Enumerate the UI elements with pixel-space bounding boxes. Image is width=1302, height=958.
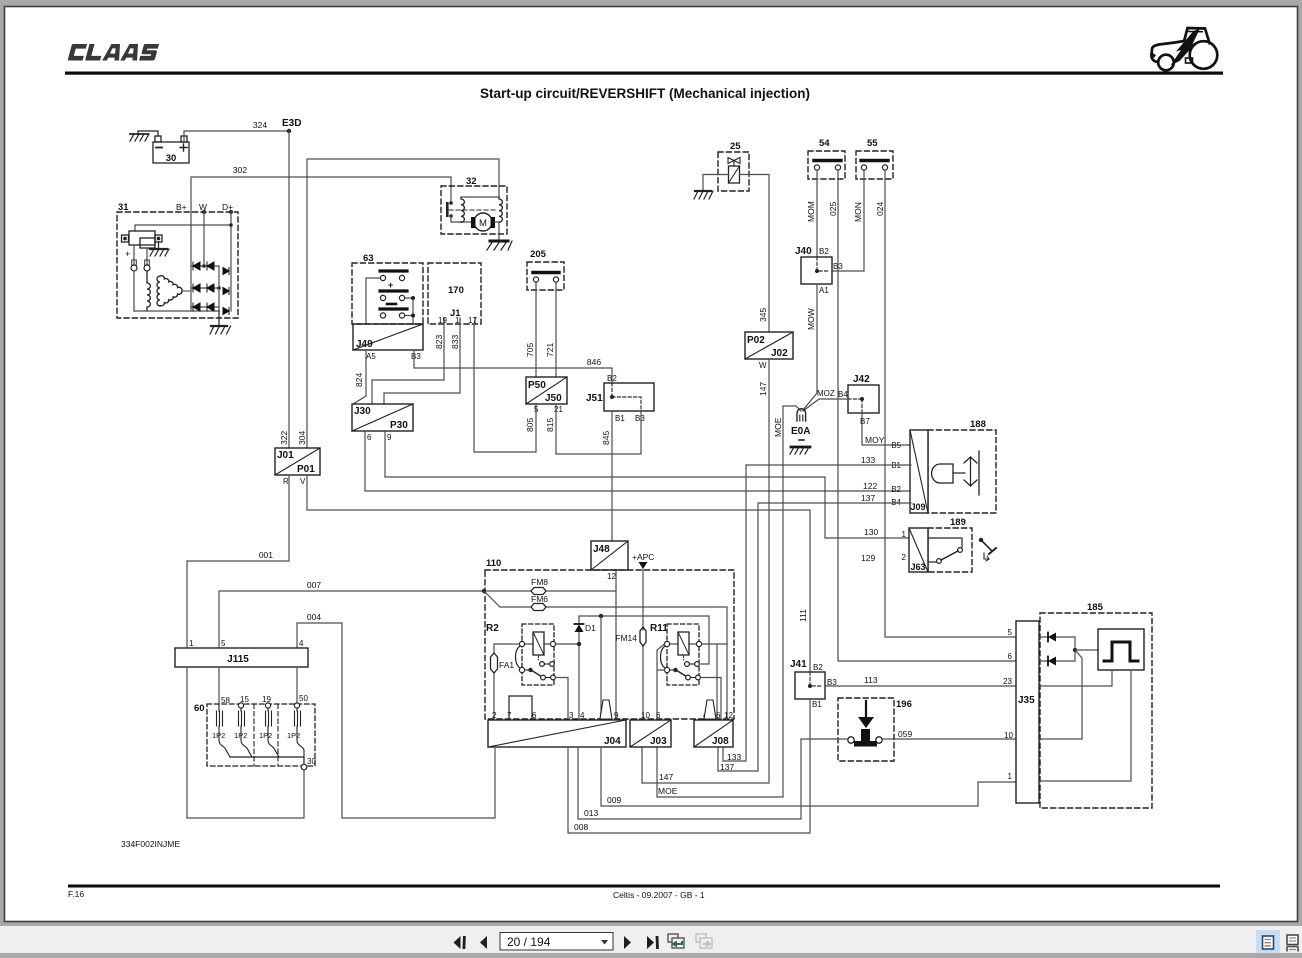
svg-text:B3: B3 — [635, 414, 645, 423]
svg-text:19: 19 — [438, 316, 447, 325]
svg-text:J51: J51 — [586, 393, 603, 404]
svg-text:J09: J09 — [911, 502, 926, 512]
svg-text:R: R — [283, 477, 289, 486]
svg-text:001: 001 — [259, 550, 273, 560]
toolbar: last page button — [647, 936, 659, 949]
alternator ground — [210, 311, 231, 334]
relay J41 — [790, 659, 837, 709]
svg-text:P30: P30 — [390, 420, 408, 431]
alternator 31 — [117, 202, 238, 334]
contact row 3 — [387, 303, 396, 306]
node E3D — [287, 129, 291, 133]
brush terminals — [134, 245, 147, 265]
svg-text:MON: MON — [853, 202, 863, 222]
svg-text:189: 189 — [950, 517, 966, 528]
wire 122 J30.6 to J09.B2 — [365, 431, 911, 491]
svg-text:J50: J50 — [545, 393, 562, 404]
svg-text:196: 196 — [896, 699, 912, 710]
field coil right — [499, 197, 502, 222]
coil — [533, 632, 544, 655]
svg-text:12: 12 — [724, 711, 733, 720]
svg-text:113: 113 — [864, 675, 878, 685]
wire 345 solenoid to P02 — [740, 175, 770, 333]
svg-text:J63: J63 — [911, 562, 926, 572]
svg-text:20 / 194: 20 / 194 — [507, 935, 551, 949]
svg-text:P02: P02 — [747, 335, 765, 346]
svg-text:B5: B5 — [891, 441, 901, 450]
svg-text:58: 58 — [221, 696, 230, 705]
wire 833 J1.1 to J30 — [384, 324, 460, 404]
fuse FM6 — [531, 594, 548, 611]
starter motor 32 — [441, 176, 512, 250]
wire MOZ E0A to J42.B4 — [803, 399, 848, 411]
svg-text:3: 3 — [569, 711, 574, 720]
regulator ground — [150, 242, 169, 256]
svg-text:60: 60 — [194, 703, 205, 714]
svg-text:10: 10 — [1004, 731, 1013, 740]
svg-text:+: + — [125, 249, 130, 259]
svg-text:6: 6 — [532, 711, 537, 720]
svg-text:1P2: 1P2 — [259, 731, 272, 740]
mechanical link — [449, 209, 495, 211]
wire R2 coil to FA1 to J04.2 — [494, 644, 520, 720]
svg-text:322: 322 — [279, 431, 289, 445]
toolbar: next page button — [624, 936, 631, 949]
svg-text:110: 110 — [486, 558, 501, 569]
svg-text:6: 6 — [367, 433, 372, 442]
svg-text:J40: J40 — [795, 246, 812, 257]
svg-text:J03: J03 — [650, 736, 667, 747]
svg-text:185: 185 — [1087, 602, 1104, 613]
wire D+ — [230, 212, 232, 311]
svg-text:1P2: 1P2 — [212, 731, 225, 740]
diode b — [1039, 660, 1075, 662]
svg-text:5: 5 — [534, 405, 539, 414]
svg-text:MOM: MOM — [806, 201, 816, 222]
connector P02/J02 — [745, 332, 793, 370]
svg-text:334F002INJME: 334F002INJME — [121, 839, 180, 849]
coil-common link curve — [516, 646, 521, 668]
wire 007 J115.5 to FM8/J48 — [219, 591, 616, 648]
svg-text:B3: B3 — [833, 262, 843, 271]
svg-text:17: 17 — [468, 316, 477, 325]
svg-text:1P2: 1P2 — [234, 731, 247, 740]
wire +APC through FM14 to J03.10 — [642, 569, 644, 720]
A — [120, 44, 141, 61]
pin funnel — [600, 700, 612, 719]
svg-text:302: 302 — [233, 165, 247, 175]
svg-text:FM6: FM6 — [531, 594, 548, 604]
wire 009 J04 to J35.1 — [601, 747, 1016, 806]
node D+ — [229, 210, 233, 214]
svg-text:10: 10 — [641, 711, 650, 720]
brake switch 196 — [838, 698, 912, 761]
fuse 1P2 (a) — [217, 705, 231, 757]
svg-text:205: 205 — [530, 249, 547, 260]
diode a — [1039, 636, 1075, 638]
fuse FA1 — [491, 653, 498, 673]
toolbar: prev page button — [480, 936, 487, 949]
voltage regulator — [122, 231, 163, 248]
bottom wire — [134, 310, 219, 312]
svg-text:4: 4 — [299, 639, 304, 648]
wire R11 contact to J08.6 — [701, 678, 722, 721]
svg-text:324: 324 — [253, 120, 267, 130]
svg-text:E0A: E0A — [791, 426, 810, 437]
svg-text:1: 1 — [902, 530, 907, 539]
page-mode button (continuous) — [1287, 935, 1298, 952]
svg-text:R11: R11 — [650, 623, 668, 634]
svg-text:B2: B2 — [891, 485, 901, 494]
svg-text:2: 2 — [902, 553, 907, 562]
svg-text:J42: J42 — [853, 374, 870, 385]
svg-text:B1: B1 — [615, 414, 625, 423]
svg-text:+APC: +APC — [632, 552, 654, 562]
svg-text:845: 845 — [601, 431, 611, 445]
connector J01/P01 — [275, 448, 320, 486]
svg-text:846: 846 — [587, 357, 601, 367]
thermostarter control 63 — [352, 253, 423, 324]
wire R2 coil to D1 junction, down to J04.4 — [556, 616, 710, 720]
svg-text:9: 9 — [387, 433, 392, 442]
wire to J04.10 — [600, 616, 602, 720]
svg-text:304: 304 — [297, 431, 307, 445]
svg-text:122: 122 — [863, 481, 877, 491]
page-mode button (active, single page) — [1256, 930, 1280, 953]
svg-text:1P2: 1P2 — [287, 731, 300, 740]
wire J115.4 to fuse 50 — [296, 667, 298, 702]
connector J03 — [630, 711, 671, 747]
svg-text:6: 6 — [1008, 652, 1013, 661]
svg-text:188: 188 — [970, 419, 986, 430]
S — [139, 44, 159, 61]
svg-text:133: 133 — [861, 455, 875, 465]
svg-text:55: 55 — [867, 138, 878, 149]
wire MOY J42.B7 to J09.B5 — [862, 413, 911, 445]
L — [85, 44, 104, 61]
svg-text:833: 833 — [450, 335, 460, 349]
wire 815 J50.21 to J51.B3 — [556, 404, 641, 454]
svg-text:6: 6 — [656, 711, 661, 720]
wire 137 J08 to J09.B4 — [718, 503, 911, 771]
svg-text:A1: A1 — [819, 286, 829, 295]
wire 008 J04 to J41.B1 — [568, 699, 810, 833]
lightning bolt — [1171, 29, 1201, 66]
svg-text:B4: B4 — [838, 390, 848, 399]
switch contacts — [928, 538, 962, 547]
battery 30 — [153, 136, 189, 163]
rotor field coil — [133, 271, 135, 311]
diode D1 — [575, 625, 584, 633]
svg-text:J115: J115 — [227, 654, 249, 665]
coil-common link curve — [661, 646, 666, 668]
wire 004 J115.4 to J04 — [297, 623, 495, 818]
svg-text:Start-up circuit/REVERSHIFT (M: Start-up circuit/REVERSHIFT (Mechanical … — [480, 86, 810, 101]
svg-text:+: + — [388, 280, 393, 290]
field coil left — [461, 197, 464, 222]
svg-text:705: 705 — [525, 343, 535, 357]
svg-text:111: 111 — [798, 609, 808, 622]
wire MOW J40.A1 to E0A — [803, 284, 817, 410]
svg-text:6: 6 — [716, 711, 721, 720]
relay R2 — [486, 623, 556, 685]
wire 024 to J35.5 — [885, 170, 1016, 637]
ground (solenoid 25) — [694, 191, 713, 199]
wire B+ inside — [190, 212, 192, 311]
connector J49 — [353, 324, 423, 361]
toolbar: page number box — [500, 933, 613, 951]
svg-text:137: 137 — [861, 493, 875, 503]
A — [102, 44, 123, 61]
svg-text:J04: J04 — [604, 736, 621, 747]
svg-text:A5: A5 — [366, 352, 376, 361]
common contact — [664, 667, 669, 672]
svg-text:J08: J08 — [712, 736, 729, 747]
wire 111 J01.V to J41.B2 — [307, 475, 810, 672]
footer rule — [68, 885, 1220, 888]
wire 705 — [535, 282, 537, 377]
contact row 1 — [380, 269, 407, 272]
svg-text:170: 170 — [448, 285, 464, 296]
svg-text:Celtis - 09.2007 - GB - 1: Celtis - 09.2007 - GB - 1 — [613, 890, 705, 900]
svg-text:009: 009 — [607, 795, 621, 805]
relay R11 — [650, 623, 702, 685]
common rail — [230, 757, 304, 764]
svg-text:5: 5 — [1008, 628, 1013, 637]
fixed contacts — [685, 662, 690, 667]
wire 025/129 to J35.6 — [838, 170, 1016, 661]
svg-text:J41: J41 — [790, 659, 807, 670]
svg-text:J48: J48 — [593, 544, 610, 555]
svg-text:9: 9 — [614, 711, 619, 720]
svg-text:147: 147 — [659, 772, 673, 782]
clutch pedal icon — [979, 538, 996, 561]
shutoff solenoid 25 — [718, 141, 749, 191]
earth point E0A — [790, 409, 810, 454]
wire 721 — [555, 282, 557, 377]
connector J09 / fuel solenoid 188 — [891, 419, 996, 513]
wire MOE J03.6 to E0A — [657, 406, 801, 797]
svg-text:MOE: MOE — [658, 786, 678, 796]
svg-text:B2: B2 — [813, 663, 823, 672]
svg-text:059: 059 — [898, 729, 912, 739]
fuse 1P2 (b) — [239, 708, 253, 757]
fixed contacts — [540, 662, 545, 667]
svg-text:025: 025 — [828, 202, 838, 216]
svg-text:P50: P50 — [528, 380, 546, 391]
switch 55 — [856, 138, 893, 179]
svg-text:12: 12 — [607, 572, 616, 581]
relay J51 — [586, 374, 654, 423]
svg-text:4: 4 — [580, 711, 585, 720]
wire 324 battery+ to E3D — [184, 131, 289, 142]
terminal 30 — [301, 764, 307, 770]
wire R11 coil to FM6 line and J08.4 — [702, 644, 728, 720]
svg-text:50: 50 — [299, 694, 308, 703]
wire R2 contact to J04.3 — [556, 678, 569, 721]
wire J1.17 to J50.5 (805) — [474, 324, 536, 452]
svg-text:J01: J01 — [277, 450, 294, 461]
relay J42 — [838, 374, 879, 426]
svg-text:J35: J35 — [1018, 695, 1035, 706]
svg-text:V: V — [300, 477, 306, 486]
svg-text:1: 1 — [189, 639, 194, 648]
wire 823 J1.19 to J30 — [372, 324, 444, 404]
solenoid icon — [932, 464, 953, 483]
svg-text:J30: J30 — [354, 406, 371, 417]
control unit 170 / J1 — [428, 263, 481, 325]
relay J40 — [795, 246, 843, 295]
svg-text:R2: R2 — [486, 623, 499, 634]
svg-text:133: 133 — [727, 752, 741, 762]
junction — [1074, 637, 1076, 661]
wire MON 55 to J40.B3 — [832, 170, 864, 271]
toolbar: next view icon (disabled) — [696, 934, 712, 948]
wire 824 J49.A5 to J30 — [353, 350, 366, 404]
wire J115.5 to fuse 58 — [218, 667, 220, 705]
wire 113 J41.B3 to J35.23 — [825, 685, 1016, 687]
svg-text:5: 5 — [221, 639, 226, 648]
connector J115 — [175, 639, 308, 667]
wire 322 E3D down to J01 — [288, 131, 290, 448]
svg-text:FA1: FA1 — [499, 660, 514, 670]
connector J30/P30 — [352, 404, 413, 442]
svg-text:D1: D1 — [585, 623, 596, 633]
wire 147 P02.W to J03 — [642, 359, 769, 783]
wire 304 J01 to starter coil — [307, 159, 499, 448]
svg-text:008: 008 — [574, 822, 588, 832]
fuse box 60 — [194, 694, 316, 770]
connector J08 — [694, 700, 733, 747]
svg-text:FM14: FM14 — [615, 633, 637, 643]
svg-text:E3D: E3D — [282, 118, 301, 129]
wire J115.1 to fuse box terminal 30 — [187, 667, 304, 818]
wire 001 J01.R to J115.1 — [187, 475, 289, 648]
svg-text:B+: B+ — [176, 202, 187, 212]
connector detail rect — [509, 696, 532, 719]
svg-text:824: 824 — [354, 373, 364, 387]
CLAAS logo — [68, 44, 159, 61]
svg-text:MOY: MOY — [865, 435, 885, 445]
svg-text:23: 23 — [1003, 677, 1012, 686]
internal wiring — [1039, 670, 1112, 686]
stator delta winding — [157, 276, 191, 306]
wire 059 brake switch to J35.10 — [883, 738, 1017, 740]
svg-text:B2: B2 — [819, 247, 829, 256]
toolbar background — [0, 926, 1302, 953]
svg-text:MOE: MOE — [773, 417, 783, 437]
right wire with junction dots — [405, 298, 413, 324]
right diode column — [219, 266, 229, 315]
svg-text:815: 815 — [545, 418, 555, 432]
wire 25 to ground — [703, 175, 729, 192]
connector J63 / safety switch 189 — [902, 517, 972, 572]
connector P50/J50 — [526, 377, 567, 414]
svg-text:J49: J49 — [356, 339, 373, 350]
svg-text:823: 823 — [434, 335, 444, 349]
wire 302 alternator B+ to starter switch — [191, 177, 451, 212]
svg-text:130: 130 — [864, 527, 878, 537]
svg-text:345: 345 — [758, 308, 768, 322]
svg-text:B3: B3 — [411, 352, 421, 361]
wire 013 J04 to brake switch — [578, 739, 848, 819]
node W — [202, 210, 206, 214]
coil top link — [461, 196, 499, 198]
coil — [678, 632, 689, 655]
wire 130 J30.9 to J63.1 — [385, 431, 911, 538]
connector J04 — [488, 696, 626, 747]
wire 845 J51.B1 to J48 — [611, 411, 613, 541]
wire FM6 branch to J08.12 — [484, 591, 727, 720]
solenoid contact — [449, 201, 453, 205]
toolbar: first page button — [454, 936, 466, 949]
svg-text:721: 721 — [545, 343, 555, 357]
wire R11 coil/common to J03.6 — [657, 644, 665, 720]
tractor icon with lightning bolt — [1151, 28, 1218, 70]
svg-text:1: 1 — [455, 316, 460, 325]
rectifier diodes row 1 — [191, 262, 219, 311]
svg-text:F.16: F.16 — [68, 889, 84, 899]
starter ground — [490, 240, 508, 243]
svg-text:024: 024 — [875, 202, 885, 216]
left feed wire — [366, 278, 380, 324]
svg-text:MOW: MOW — [806, 308, 816, 330]
svg-text:FM8: FM8 — [531, 577, 548, 587]
fuse FM14 — [640, 627, 646, 646]
pin funnel — [704, 700, 716, 719]
svg-text:54: 54 — [819, 138, 830, 149]
fuse 1P2 (d) — [295, 708, 305, 757]
wire 133 J08 to J09.B1 — [723, 465, 911, 761]
motor M — [474, 213, 492, 231]
fuse FM8 — [531, 577, 548, 595]
svg-text:25: 25 — [730, 141, 741, 152]
svg-text:W: W — [759, 361, 767, 370]
svg-text:013: 013 — [584, 808, 598, 818]
svg-text:P01: P01 — [297, 464, 315, 475]
wire W — [203, 212, 205, 266]
svg-text:30: 30 — [166, 153, 177, 164]
wire 846 J49.B3 to J51.B2 — [414, 350, 612, 383]
wire MOM 54 to J40.B2 — [816, 170, 818, 257]
toolbar: previous view icon — [668, 934, 684, 948]
pulse generator box — [1098, 629, 1144, 670]
switch 54 — [808, 138, 845, 179]
svg-text:137: 137 — [720, 762, 734, 772]
svg-text:B1: B1 — [812, 700, 822, 709]
svg-text:J02: J02 — [771, 348, 788, 359]
svg-text:MOZ: MOZ — [817, 389, 835, 398]
svg-text:2: 2 — [492, 711, 497, 720]
svg-text:805: 805 — [525, 418, 535, 432]
svg-text:1: 1 — [1008, 772, 1013, 781]
header rule — [65, 72, 1223, 75]
svg-text:004: 004 — [307, 612, 321, 622]
svg-text:129: 129 — [861, 553, 875, 563]
svg-text:007: 007 — [307, 580, 321, 590]
wire J48.12 to J04.9 — [615, 570, 617, 720]
C — [68, 44, 87, 61]
common contact — [519, 667, 524, 672]
connector J48 — [591, 541, 628, 581]
fuse 1P2 (c) — [266, 708, 280, 757]
regulator top wire — [135, 225, 231, 231]
svg-text:M: M — [479, 218, 487, 229]
svg-text:B2: B2 — [607, 374, 617, 383]
ground (battery negative) — [130, 131, 158, 141]
ECU J35 / speed module 185 — [1003, 602, 1152, 808]
glow plug switch 205 — [527, 249, 564, 290]
